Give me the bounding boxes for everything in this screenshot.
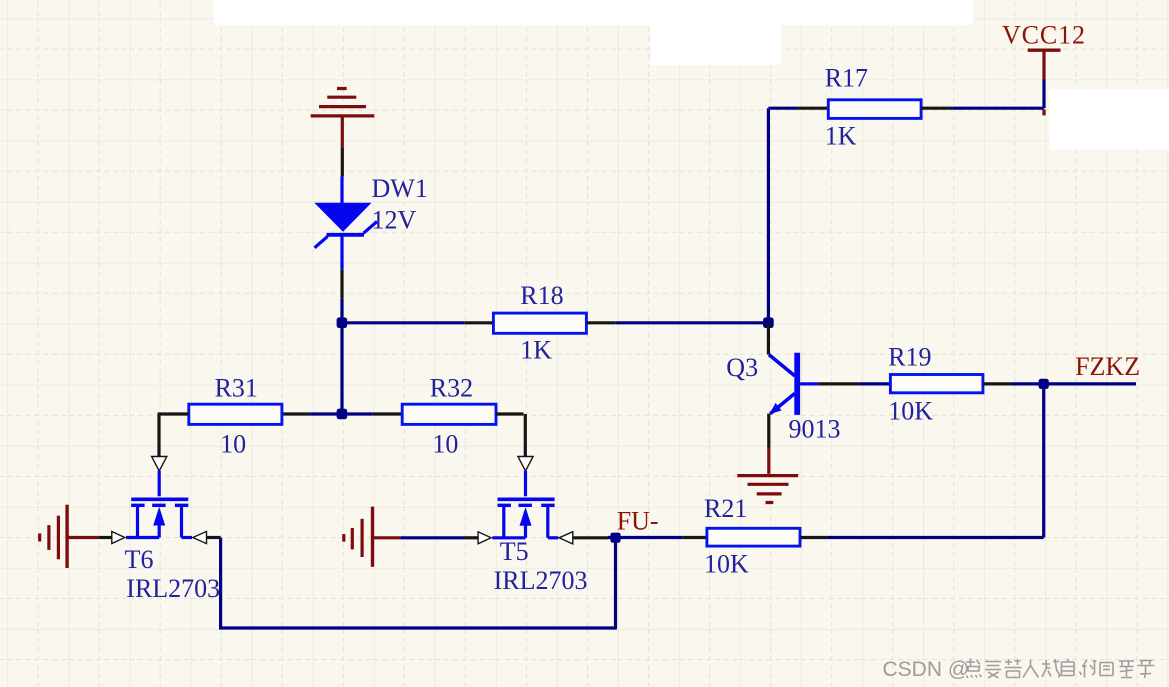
wire junction2 to R32 navy	[342, 412, 373, 415]
svg-text:1K: 1K	[520, 336, 552, 365]
wire VCC stem navy	[1042, 80, 1045, 109]
label DW1	[372, 174, 428, 203]
svg-text:FZKZ: FZKZ	[1075, 352, 1140, 381]
wire FZKZ column vertical navy	[1042, 384, 1045, 538]
pin R21 left black	[682, 536, 707, 539]
pin R31 left black	[158, 412, 189, 415]
wire R18 left navy	[342, 321, 465, 324]
junction node at R18 left	[337, 317, 348, 328]
value 10 (R32)	[432, 430, 458, 459]
wire T5 chassis to arrow navy	[400, 536, 464, 539]
label FU-	[617, 507, 659, 536]
svg-text:10K: 10K	[888, 397, 933, 426]
wire Q3 emitter to ground red	[767, 448, 770, 474]
arrow into T5 source (left)	[478, 532, 491, 544]
junction node at FZKZ column	[1039, 379, 1049, 389]
arrow down into T6 gate	[152, 457, 167, 472]
svg-text:DW1: DW1	[372, 174, 428, 203]
wire R32 corner down black	[524, 414, 527, 456]
value 10K (R21)	[704, 550, 749, 579]
arrow down into T5 gate	[518, 457, 533, 472]
pin R17 left black	[797, 107, 828, 110]
svg-text:T5: T5	[500, 537, 529, 566]
svg-text:VCC12: VCC12	[1002, 21, 1086, 50]
svg-text:R32: R32	[430, 374, 473, 403]
arrow into T5 drain (right)	[559, 532, 573, 544]
svg-text:T6: T6	[125, 545, 154, 574]
value 10 (R31)	[220, 430, 246, 459]
transistor T5 IRL2703	[492, 471, 558, 538]
svg-text:12V: 12V	[372, 206, 417, 235]
svg-text:IRL2703: IRL2703	[494, 566, 588, 595]
value 9013	[789, 415, 841, 444]
wire T6 drain down navy	[219, 538, 222, 630]
wire top-ground stem black segment	[341, 147, 344, 176]
watermark chinese glyphs	[966, 659, 1155, 679]
arrow into T6 drain (right)	[193, 531, 207, 543]
label T6	[125, 545, 154, 574]
wire R17 row left navy	[768, 107, 797, 110]
label Q3	[726, 353, 758, 382]
pin T6 left black	[98, 536, 112, 539]
wire junction2 to R31 navy	[310, 412, 342, 415]
value 1K (R17)	[825, 122, 857, 151]
junction node FU-	[610, 533, 620, 543]
junction node at Q3 collector feed	[763, 317, 774, 328]
ground GND under Q3 (earth symbol)	[737, 476, 798, 503]
value IRL2703 (T6)	[126, 574, 220, 603]
pin Q3 base black	[819, 382, 859, 385]
label VCC12	[1002, 21, 1086, 50]
wire R17 feed vertical navy	[767, 108, 770, 323]
svg-text:1K: 1K	[825, 122, 857, 151]
svg-text:R18: R18	[520, 281, 563, 310]
pin R31 right black	[282, 412, 310, 415]
label T5	[500, 537, 529, 566]
ground GND top (inverted earth symbol)	[311, 89, 375, 116]
pin R17 right black	[921, 107, 953, 110]
wire R21 to FZKZ column navy	[828, 536, 1044, 539]
wire R17 to VCC navy	[953, 107, 1044, 110]
pin R19 right black	[983, 382, 1011, 385]
power VCC12 symbol	[1028, 50, 1061, 115]
watermark CSDN	[883, 658, 970, 681]
pin R21 right black	[800, 536, 828, 539]
wire R31 corner down black	[157, 414, 160, 456]
pin R32 left black	[373, 412, 402, 415]
wire R19 to FZKZ navy	[1011, 382, 1136, 385]
svg-text:R21: R21	[704, 494, 747, 523]
wire Q3 base to R19 navy	[858, 382, 890, 385]
wire Q3 collector black	[767, 323, 770, 355]
label R19	[888, 343, 931, 372]
svg-text:10: 10	[220, 430, 246, 459]
resistor R19	[890, 375, 983, 393]
value 10K (R19)	[888, 397, 933, 426]
svg-text:9013: 9013	[789, 415, 841, 444]
arrow into T6 source (left)	[112, 532, 125, 544]
label R18	[520, 281, 563, 310]
svg-text:R17: R17	[825, 64, 868, 93]
wire diode cathode stem black	[340, 269, 343, 298]
wire top-ground stem red segment	[341, 116, 344, 147]
resistor R31	[189, 404, 282, 424]
label R21	[704, 494, 747, 523]
wire Q3 emitter black	[767, 414, 770, 448]
wire R18 right navy	[616, 321, 769, 324]
resistor R17	[828, 100, 921, 119]
label R17	[825, 64, 868, 93]
pin R18 left black	[465, 321, 494, 324]
svg-text:IRL2703: IRL2703	[126, 574, 220, 603]
value 1K (R18)	[520, 336, 552, 365]
svg-text:FU-: FU-	[617, 507, 659, 536]
diode DW1 zener 12V	[314, 203, 377, 248]
transistor Q3 9013	[769, 353, 819, 415]
resistor R32	[402, 404, 496, 424]
svg-text:Q3: Q3	[726, 353, 758, 382]
junction node at R31/R32	[337, 409, 348, 420]
value 12V	[372, 206, 417, 235]
wire main vertical net navy	[340, 299, 343, 414]
pin T5 left black	[465, 536, 479, 539]
svg-text:CSDN @: CSDN @	[883, 658, 970, 681]
svg-text:R31: R31	[215, 374, 258, 403]
label R32	[430, 374, 473, 403]
ground chassis T6 (rotated bars)	[40, 505, 99, 568]
transistor T6 IRL2703	[126, 471, 192, 538]
pin R32 right black	[496, 412, 524, 415]
resistor R21	[707, 528, 800, 546]
pin R18 right black	[586, 321, 615, 324]
label FZKZ	[1075, 352, 1140, 381]
wire FU- to R21 navy	[608, 536, 682, 539]
svg-text:R19: R19	[888, 343, 931, 372]
ground chassis T5 (rotated bars)	[344, 507, 401, 567]
wire bottom horizontal navy	[219, 626, 617, 629]
label R31	[215, 374, 258, 403]
resistor R18	[493, 313, 586, 333]
pin T6 right black	[207, 536, 221, 539]
svg-text:10: 10	[432, 430, 458, 459]
wire FU- down navy	[614, 538, 617, 628]
wire diode cathode stem blue	[340, 235, 343, 269]
value IRL2703 (T5)	[494, 566, 588, 595]
svg-text:10K: 10K	[704, 550, 749, 579]
wire diode anode stem blue	[340, 176, 343, 203]
pin T5 right black	[573, 536, 608, 539]
